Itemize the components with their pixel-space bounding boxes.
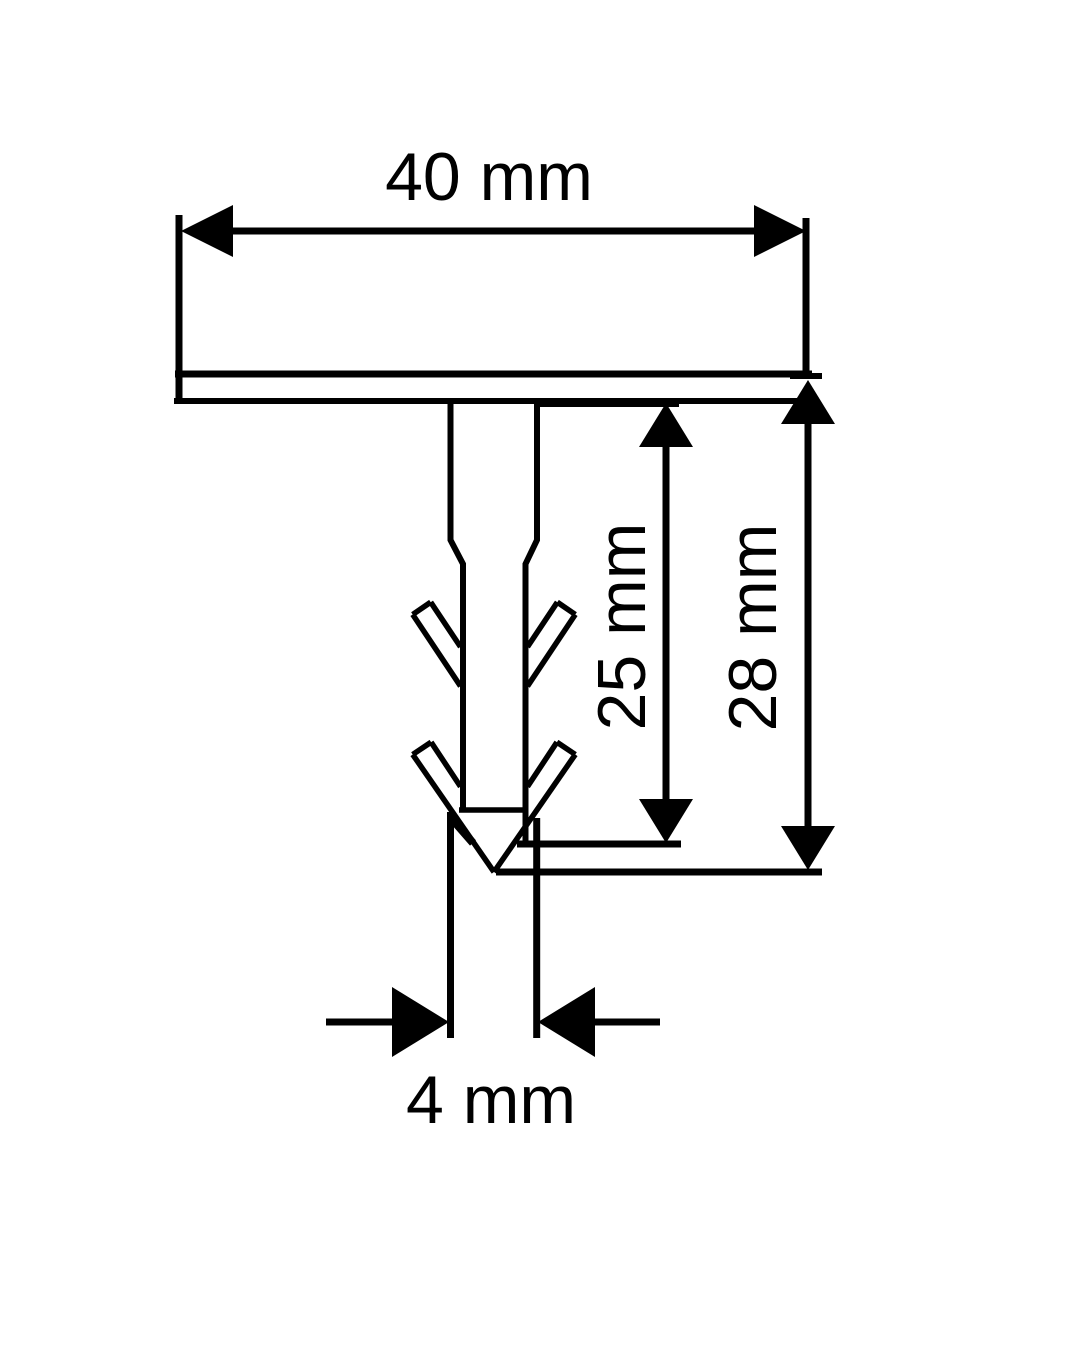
head plate bottom edge: [174, 398, 810, 404]
arrowhead 25 mm bottom: [639, 799, 693, 843]
barb lower right: [494, 742, 575, 872]
shank right wall: [526, 401, 538, 845]
extension line 40 mm right: [803, 218, 810, 377]
dimension 4 mm label: [406, 1062, 576, 1138]
arrowhead 28 mm bottom: [781, 826, 835, 870]
dimension 4 mm left arrow: [326, 987, 449, 1057]
extension line 28 mm top tick: [790, 373, 822, 379]
dimension 25 mm label: [584, 523, 660, 731]
arrowhead 25 mm top: [639, 403, 693, 447]
extension line 40 mm left: [176, 215, 183, 404]
barb upper right: [528, 602, 576, 686]
head plate top edge: [175, 371, 812, 378]
extension line 25 mm top: [537, 401, 679, 407]
svg-text:25 mm: 25 mm: [584, 523, 660, 731]
shank left wall: [451, 401, 464, 812]
dimension 4 mm right arrow: [538, 987, 660, 1057]
arrowhead 40 mm left: [181, 205, 233, 257]
dimension 40 mm label: [385, 139, 593, 215]
arrowhead 40 mm right: [754, 205, 806, 257]
dimension 28 mm line: [805, 388, 812, 862]
extension line 4 mm right: [533, 818, 540, 1038]
svg-text:28 mm: 28 mm: [715, 524, 791, 732]
barb upper left: [413, 602, 461, 686]
shank chamfer line: [459, 807, 528, 813]
svg-text:4 mm: 4 mm: [406, 1062, 576, 1138]
extension line 25 mm bottom: [517, 841, 681, 848]
dimension 28 mm label: [715, 524, 791, 732]
extension line 4 mm left: [447, 812, 454, 1038]
dimension 25 mm line: [663, 410, 670, 836]
svg-text:40 mm: 40 mm: [385, 139, 593, 215]
extension line 28 mm bottom: [496, 869, 822, 876]
arrowhead 28 mm top: [781, 380, 835, 424]
dimension 40 mm line: [200, 228, 790, 235]
barb lower left: [413, 742, 494, 872]
wire tip left wedge overlap: [452, 819, 473, 843]
